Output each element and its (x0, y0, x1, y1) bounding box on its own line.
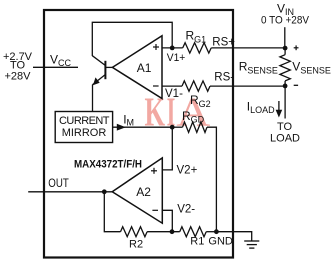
wire R2 to junction (147, 231, 180, 233)
wire feedback Q1 collector to node V1+ (92, 22, 172, 56)
wire RGD to GND node (207, 127, 216, 232)
resistor R1 (180, 227, 207, 237)
ground (244, 241, 259, 248)
svg-text:MAX4372T/F/H: MAX4372T/F/H (74, 159, 142, 171)
op-amp A2 (112, 158, 162, 223)
resistor RG1 (183, 43, 212, 53)
resistor RGD (183, 122, 208, 132)
svg-text:OUT: OUT (48, 178, 69, 190)
wire A2 output to R2 (104, 192, 120, 232)
node GND (214, 229, 219, 234)
node A2 output (102, 189, 107, 194)
node RSENSE top (283, 46, 288, 51)
supply label +2.7V TO +28V (3, 51, 33, 83)
svg-text:TO: TO (277, 121, 293, 133)
IC boundary box MAX4372 (44, 10, 233, 258)
wire A1 inverting input (162, 85, 182, 87)
svg-text:LOAD: LOAD (270, 133, 300, 145)
wire to load (284, 86, 286, 119)
wire IM with arrow (113, 126, 173, 128)
svg-text:V1-: V1- (165, 88, 183, 100)
svg-text:MIRROR: MIRROR (62, 127, 107, 139)
wire A2 noninverting input (162, 127, 172, 170)
svg-text:0 TO +28V: 0 TO +28V (261, 15, 310, 27)
wire RS+ (211, 47, 285, 49)
svg-text:GND: GND (208, 236, 233, 248)
resistor R2 (121, 227, 148, 237)
arrow ILOAD (278, 101, 280, 112)
svg-text:CURRENT: CURRENT (59, 115, 110, 127)
wire R1 to GND node (206, 231, 216, 233)
svg-text:V2-: V2- (177, 204, 195, 216)
svg-text:R1: R1 (190, 235, 204, 247)
node V1+ (170, 46, 175, 51)
svg-text:V1+: V1+ (167, 52, 186, 64)
wire A2 inverting input (162, 210, 172, 231)
node V2+ junction (170, 125, 175, 130)
watermark KIA (145, 88, 211, 135)
wire A1 noninverting input (162, 47, 183, 49)
resistor RG2 (182, 81, 210, 91)
svg-text:A1: A1 (137, 61, 152, 75)
node RSENSE bottom (283, 84, 288, 89)
svg-text:RS+: RS+ (212, 36, 235, 48)
svg-text:RS-: RS- (214, 71, 234, 83)
node R2/R1 junction (170, 229, 175, 234)
svg-text:R2: R2 (129, 239, 143, 251)
svg-text:V2+: V2+ (177, 165, 198, 177)
current mirror block (55, 112, 112, 143)
wire GND to ground (216, 232, 251, 241)
svg-text:A2: A2 (136, 185, 151, 199)
wire RS- (210, 85, 285, 87)
resistor RSENSE (284, 48, 286, 55)
op-amp A1 (112, 36, 162, 99)
wire OUT (28, 191, 112, 193)
terminal VIN (284, 27, 286, 48)
transistor Q1 (92, 56, 113, 112)
svg-text:+28V: +28V (5, 71, 32, 83)
wire VCC pin (33, 66, 78, 68)
